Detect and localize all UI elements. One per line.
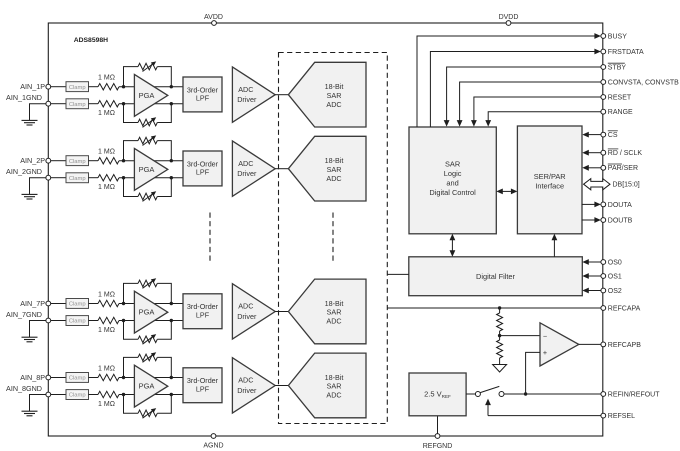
wire REFCAPB bbox=[579, 343, 601, 345]
op-amp PGA ch8 bbox=[134, 365, 167, 407]
variable resistor top PGA ch7 bbox=[138, 278, 157, 288]
clamp box AIN_8P bbox=[66, 373, 89, 383]
clamp box AIN_2P bbox=[66, 156, 89, 166]
pin AIN_7P bbox=[46, 301, 51, 306]
svg-text:+: + bbox=[543, 348, 547, 357]
clamp box AIN_2GND bbox=[66, 173, 89, 183]
svg-text:FRSTDATA: FRSTDATA bbox=[608, 49, 644, 56]
node divider mid bbox=[498, 334, 501, 337]
svg-text:ADC: ADC bbox=[238, 85, 253, 94]
ground AIN_7GND bbox=[22, 337, 38, 342]
svg-text:Digital Control: Digital Control bbox=[429, 188, 476, 197]
wire resistor to PGA input AIN_8P bbox=[119, 377, 183, 379]
clamp box AIN_7GND bbox=[66, 316, 89, 326]
filter 3rd-Order LPF ch7 bbox=[183, 294, 222, 329]
label AIN_2GND bbox=[6, 167, 42, 176]
svg-text:AIN_7GND: AIN_7GND bbox=[6, 310, 42, 319]
pin RD / SCLK bbox=[601, 149, 642, 157]
op-amp PGA ch7 bbox=[134, 291, 167, 333]
pin REFCAPA bbox=[601, 305, 641, 312]
ADC 18-Bit SAR ch7 bbox=[288, 279, 366, 344]
svg-text:1 MΩ: 1 MΩ bbox=[98, 75, 115, 82]
pin AIN_8GND bbox=[46, 392, 51, 397]
wire resistor to PGA input AIN_8GND bbox=[119, 394, 183, 396]
pin AIN_2P bbox=[46, 158, 51, 163]
svg-text:DOUTA: DOUTA bbox=[608, 202, 632, 209]
svg-text:SAR: SAR bbox=[327, 165, 342, 174]
resistor 1 M&#937; AIN_7GND bbox=[98, 317, 119, 334]
svg-text:RD / SCLK: RD / SCLK bbox=[608, 150, 643, 157]
svg-text:Driver: Driver bbox=[237, 386, 257, 395]
label AIN_7GND bbox=[6, 310, 42, 319]
wire DOUTA bbox=[582, 202, 601, 208]
svg-text:Clamp: Clamp bbox=[69, 393, 86, 399]
svg-text:PGA: PGA bbox=[139, 308, 155, 317]
svg-text:Clamp: Clamp bbox=[69, 319, 86, 325]
wire AIN_1GND to clamp bbox=[51, 103, 66, 105]
svg-text:SER/PAR: SER/PAR bbox=[534, 172, 566, 181]
svg-text:RANGE: RANGE bbox=[608, 109, 633, 116]
filter 3rd-Order LPF ch2 bbox=[183, 151, 222, 186]
pin AIN_7GND bbox=[46, 318, 51, 323]
svg-text:1 MΩ: 1 MΩ bbox=[98, 184, 115, 191]
continuation dashed line right bbox=[332, 213, 334, 264]
label AIN_8GND bbox=[6, 384, 42, 393]
svg-text:Driver: Driver bbox=[237, 312, 257, 321]
voltage reference 2.5 VREF block bbox=[409, 373, 466, 416]
svg-text:DB[15:0]: DB[15:0] bbox=[613, 182, 640, 189]
svg-text:Driver: Driver bbox=[237, 169, 257, 178]
svg-text:DOUTB: DOUTB bbox=[608, 217, 633, 224]
pin BUSY bbox=[601, 33, 627, 40]
node PGA input junctions ch2 bbox=[122, 159, 173, 179]
wire AIN_7GND to ground bbox=[30, 321, 46, 338]
amplifier ADC Driver ch1 bbox=[232, 67, 275, 122]
ADC 18-Bit SAR ch2 bbox=[288, 136, 366, 201]
svg-text:AIN_1GND: AIN_1GND bbox=[6, 93, 42, 102]
wire AIN_7GND to clamp bbox=[51, 320, 66, 322]
svg-text:1 MΩ: 1 MΩ bbox=[98, 327, 115, 334]
variable resistor top PGA ch8 bbox=[138, 352, 157, 362]
svg-text:Driver: Driver bbox=[237, 95, 257, 104]
pin DOUTB bbox=[601, 217, 633, 224]
wire AIN_8GND to ground bbox=[30, 395, 46, 412]
wire resistor to PGA input AIN_1GND bbox=[119, 103, 183, 105]
wire FRSTDATA bbox=[430, 49, 601, 127]
filter 3rd-Order LPF ch1 bbox=[183, 77, 222, 112]
svg-text:Digital Filter: Digital Filter bbox=[476, 272, 516, 281]
wire CONVSTA, CONVSTB bbox=[457, 82, 601, 127]
arrow Digital Filter to SER/PAR bbox=[552, 234, 558, 257]
svg-text:Logic: Logic bbox=[444, 169, 462, 178]
wire clamp to resistor AIN_2GND bbox=[89, 177, 99, 179]
wire VREF to switch bbox=[466, 393, 475, 395]
pin OS1 bbox=[601, 273, 622, 280]
label ADS8598H bbox=[74, 37, 108, 44]
svg-text:RESET: RESET bbox=[608, 94, 632, 101]
wire AIN_2P to clamp bbox=[51, 160, 66, 162]
wire AIN_8GND to clamp bbox=[51, 394, 66, 396]
pin CS bbox=[601, 131, 618, 139]
wire divider to op-amp inverting input bbox=[500, 335, 540, 337]
svg-text:SAR: SAR bbox=[327, 382, 342, 391]
svg-text:PGA: PGA bbox=[139, 382, 155, 391]
clamp box AIN_1P bbox=[66, 82, 89, 92]
svg-text:PGA: PGA bbox=[139, 91, 155, 100]
svg-text:STBY: STBY bbox=[608, 64, 627, 71]
svg-text:AGND: AGND bbox=[203, 443, 223, 450]
wire ADC driver to SAR ADC ch2 bbox=[275, 168, 288, 170]
wire REFGND to 2.5V ref bbox=[437, 416, 439, 436]
pin RESET bbox=[601, 94, 632, 101]
pin DVDD bbox=[499, 14, 519, 25]
Digital Filter block bbox=[409, 257, 583, 296]
svg-text:18-Bit: 18-Bit bbox=[325, 82, 344, 91]
svg-text:Clamp: Clamp bbox=[69, 302, 86, 308]
pin DB[15:0] bbox=[613, 182, 640, 189]
wire AIN_7P to clamp bbox=[51, 303, 66, 305]
wire ADC driver to SAR ADC ch8 bbox=[275, 385, 288, 387]
label AIN_8P bbox=[20, 373, 45, 382]
wire clamp to resistor AIN_1GND bbox=[89, 103, 99, 105]
svg-text:SAR: SAR bbox=[445, 159, 460, 168]
svg-text:Clamp: Clamp bbox=[69, 159, 86, 165]
resistor 1 M&#937; AIN_1P bbox=[98, 75, 119, 90]
SAR Logic and Digital Control block bbox=[409, 127, 496, 234]
svg-text:LPF: LPF bbox=[196, 310, 210, 319]
SER/PAR Interface block bbox=[517, 126, 582, 234]
pin REFIN/REFOUT bbox=[601, 391, 660, 398]
svg-text:PGA: PGA bbox=[139, 165, 155, 174]
wire clamp to resistor AIN_8GND bbox=[89, 394, 99, 396]
node REFIN junction bbox=[524, 392, 527, 395]
node PGA input junctions ch8 bbox=[122, 376, 173, 396]
pin DOUTA bbox=[601, 202, 632, 209]
feedback wire bottom PGA ch8 bbox=[124, 395, 172, 414]
switch REFSEL bbox=[475, 386, 504, 396]
svg-text:1 MΩ: 1 MΩ bbox=[98, 365, 115, 372]
svg-text:REFIN/REFOUT: REFIN/REFOUT bbox=[608, 391, 660, 398]
svg-text:ADC: ADC bbox=[238, 159, 253, 168]
op-amp reference buffer bbox=[540, 323, 579, 366]
wire resistor to PGA input AIN_7GND bbox=[119, 320, 183, 322]
svg-text:Clamp: Clamp bbox=[69, 376, 86, 382]
feedback wire bottom PGA ch7 bbox=[124, 321, 172, 340]
feedback wire top PGA ch1 bbox=[124, 67, 172, 87]
pin AIN_2GND bbox=[46, 175, 51, 180]
wire BUSY bbox=[417, 33, 601, 127]
svg-text:OS0: OS0 bbox=[608, 259, 622, 266]
feedback wire bottom PGA ch2 bbox=[124, 178, 172, 197]
svg-text:CONVSTA, CONVSTB: CONVSTA, CONVSTB bbox=[608, 79, 679, 86]
wire clamp to resistor AIN_7P bbox=[89, 303, 99, 305]
wire op-amp non-inverting to REFIN bbox=[526, 352, 540, 394]
svg-text:BUSY: BUSY bbox=[608, 33, 627, 40]
wire switch to REFIN/REFOUT pin bbox=[504, 393, 601, 395]
wire ADC driver to SAR ADC ch1 bbox=[275, 94, 288, 96]
wire clamp to resistor AIN_2P bbox=[89, 160, 99, 162]
svg-text:ADC: ADC bbox=[238, 376, 253, 385]
wire RANGE bbox=[485, 112, 601, 127]
svg-text:OS2: OS2 bbox=[608, 288, 622, 295]
wire STBY bbox=[444, 67, 601, 127]
svg-text:ADC: ADC bbox=[326, 174, 341, 183]
resistor reference divider lower bbox=[497, 336, 503, 365]
clamp box AIN_1GND bbox=[66, 99, 89, 109]
svg-text:LPF: LPF bbox=[196, 94, 210, 103]
wire REFSEL bbox=[485, 399, 601, 416]
wire AIN_2GND to ground bbox=[30, 178, 46, 195]
continuation dashed line left bbox=[209, 213, 211, 264]
variable resistor bottom PGA ch8 bbox=[138, 408, 157, 418]
svg-text:and: and bbox=[446, 179, 458, 188]
node REFCAPA divider top bbox=[498, 306, 501, 309]
pin RANGE bbox=[601, 109, 633, 116]
feedback wire bottom PGA ch1 bbox=[124, 104, 172, 123]
svg-text:ADC: ADC bbox=[326, 317, 341, 326]
resistor 1 M&#937; AIN_7P bbox=[98, 291, 119, 306]
wire resistor to PGA input AIN_2P bbox=[119, 160, 183, 162]
wire RESET bbox=[471, 97, 601, 127]
pin REFCAPB bbox=[601, 342, 641, 349]
feedback wire top PGA ch8 bbox=[124, 357, 172, 377]
pin OS0 bbox=[601, 259, 622, 266]
svg-text:18-Bit: 18-Bit bbox=[325, 373, 344, 382]
amplifier ADC Driver ch7 bbox=[232, 284, 275, 339]
wire RD / SCLK bbox=[582, 150, 601, 156]
svg-text:SAR: SAR bbox=[327, 308, 342, 317]
wire resistor to PGA input AIN_1P bbox=[119, 86, 183, 88]
wire OS2 bbox=[582, 288, 601, 294]
wire AIN_8P to clamp bbox=[51, 377, 66, 379]
filter 3rd-Order LPF ch8 bbox=[183, 368, 222, 403]
svg-text:ADC: ADC bbox=[326, 391, 341, 400]
arrow SAR Logic to SER/PAR bidirectional bbox=[496, 189, 517, 195]
svg-text:LPF: LPF bbox=[196, 384, 210, 393]
pin AIN_8P bbox=[46, 375, 51, 380]
svg-text:REFGND: REFGND bbox=[423, 443, 453, 450]
svg-text:1 MΩ: 1 MΩ bbox=[98, 401, 115, 408]
op-amp PGA ch1 bbox=[134, 74, 167, 116]
svg-text:PAR/SER: PAR/SER bbox=[608, 165, 638, 172]
svg-text:1 MΩ: 1 MΩ bbox=[98, 291, 115, 298]
clamp box AIN_8GND bbox=[66, 390, 89, 400]
pin AIN_1GND bbox=[46, 101, 51, 106]
ground reference divider bbox=[493, 365, 507, 373]
ground AIN_1GND bbox=[22, 120, 38, 125]
resistor 1 M&#937; AIN_8P bbox=[98, 365, 119, 380]
wire resistor to PGA input AIN_2GND bbox=[119, 177, 183, 179]
svg-text:LPF: LPF bbox=[196, 168, 210, 177]
variable resistor top PGA ch1 bbox=[138, 61, 157, 71]
resistor reference divider upper bbox=[497, 308, 503, 336]
wire AIN_1P to clamp bbox=[51, 86, 66, 88]
variable resistor top PGA ch2 bbox=[138, 135, 157, 145]
svg-text:AIN_1P: AIN_1P bbox=[20, 82, 45, 91]
wire AIN_2GND to clamp bbox=[51, 177, 66, 179]
pin AIN_1P bbox=[46, 84, 51, 89]
svg-text:Clamp: Clamp bbox=[69, 102, 86, 108]
label AIN_7P bbox=[20, 299, 45, 308]
bus DB[15:0] double arrow bbox=[584, 179, 610, 190]
chip boundary ADS8598H bbox=[48, 23, 603, 436]
resistor 1 M&#937; AIN_1GND bbox=[98, 101, 119, 118]
svg-text:REFCAPB: REFCAPB bbox=[608, 342, 641, 349]
variable resistor bottom PGA ch7 bbox=[138, 334, 157, 344]
resistor 1 M&#937; AIN_2P bbox=[98, 149, 119, 164]
svg-text:AIN_8P: AIN_8P bbox=[20, 373, 45, 382]
wire clamp to resistor AIN_7GND bbox=[89, 320, 99, 322]
feedback wire top PGA ch2 bbox=[124, 141, 172, 161]
svg-text:AIN_2GND: AIN_2GND bbox=[6, 167, 42, 176]
svg-text:CS: CS bbox=[608, 132, 618, 139]
ADC 18-Bit SAR ch1 bbox=[288, 62, 366, 127]
svg-text:DVDD: DVDD bbox=[499, 14, 519, 21]
ADC 18-Bit SAR ch8 bbox=[288, 353, 366, 418]
node PGA input junctions ch7 bbox=[122, 302, 173, 322]
arrow SAR Logic to Digital Filter bidirectional bbox=[450, 234, 456, 257]
wire AIN_1GND to ground bbox=[30, 104, 46, 121]
wire REFCAPA bbox=[387, 307, 601, 309]
wire ADC block to Digital Filter bbox=[387, 273, 409, 275]
variable resistor bottom PGA ch2 bbox=[138, 191, 157, 201]
resistor 1 M&#937; AIN_2GND bbox=[98, 175, 119, 192]
node PGA input junctions ch1 bbox=[122, 85, 173, 105]
wire CS bbox=[582, 132, 601, 138]
label AIN_2P bbox=[20, 156, 45, 165]
svg-text:Clamp: Clamp bbox=[69, 176, 86, 182]
op-amp PGA ch2 bbox=[134, 148, 167, 190]
wire ADC driver to SAR ADC ch7 bbox=[275, 311, 288, 313]
amplifier ADC Driver ch8 bbox=[232, 358, 275, 413]
pin PAR/SER bbox=[601, 164, 638, 172]
svg-text:AIN_2P: AIN_2P bbox=[20, 156, 45, 165]
pin CONVSTA, CONVSTB bbox=[601, 79, 679, 86]
variable resistor bottom PGA ch1 bbox=[138, 117, 157, 127]
svg-text:OS1: OS1 bbox=[608, 273, 622, 280]
svg-text:ADS8598H: ADS8598H bbox=[74, 37, 108, 44]
pin AVDD bbox=[204, 14, 223, 25]
svg-text:AIN_7P: AIN_7P bbox=[20, 299, 45, 308]
wire resistor to PGA input AIN_7P bbox=[119, 303, 183, 305]
dashed ADC converter block box bbox=[279, 53, 388, 424]
wire OS0 bbox=[582, 259, 601, 265]
svg-text:1 MΩ: 1 MΩ bbox=[98, 110, 115, 117]
svg-text:ADC: ADC bbox=[238, 302, 253, 311]
pin AGND bbox=[203, 434, 223, 450]
pin FRSTDATA bbox=[601, 49, 644, 56]
wire clamp to resistor AIN_8P bbox=[89, 377, 99, 379]
wire OS1 bbox=[582, 273, 601, 279]
label AIN_1P bbox=[20, 82, 45, 91]
wire DOUTB bbox=[582, 217, 601, 223]
svg-text:AVDD: AVDD bbox=[204, 14, 223, 21]
pin REFSEL bbox=[601, 413, 635, 420]
resistor 1 M&#937; AIN_8GND bbox=[98, 391, 119, 408]
svg-text:1 MΩ: 1 MΩ bbox=[98, 149, 115, 156]
svg-text:AIN_8GND: AIN_8GND bbox=[6, 384, 42, 393]
label AIN_1GND bbox=[6, 93, 42, 102]
feedback wire top PGA ch7 bbox=[124, 283, 172, 303]
svg-text:18-Bit: 18-Bit bbox=[325, 156, 344, 165]
svg-text:REFSEL: REFSEL bbox=[608, 413, 635, 420]
ground AIN_2GND bbox=[22, 194, 38, 199]
amplifier ADC Driver ch2 bbox=[232, 141, 275, 196]
svg-text:18-Bit: 18-Bit bbox=[325, 299, 344, 308]
svg-text:ADC: ADC bbox=[326, 100, 341, 109]
svg-text:−: − bbox=[543, 331, 547, 340]
pin STBY bbox=[601, 63, 627, 71]
svg-text:Interface: Interface bbox=[535, 182, 564, 191]
svg-text:REFCAPA: REFCAPA bbox=[608, 305, 641, 312]
clamp box AIN_7P bbox=[66, 299, 89, 309]
svg-text:Clamp: Clamp bbox=[69, 85, 86, 91]
wire clamp to resistor AIN_1P bbox=[89, 86, 99, 88]
pin REFGND bbox=[423, 434, 453, 450]
pin OS2 bbox=[601, 288, 622, 295]
svg-text:SAR: SAR bbox=[327, 91, 342, 100]
wire PAR/SER bbox=[582, 165, 601, 171]
ground AIN_8GND bbox=[22, 411, 38, 416]
